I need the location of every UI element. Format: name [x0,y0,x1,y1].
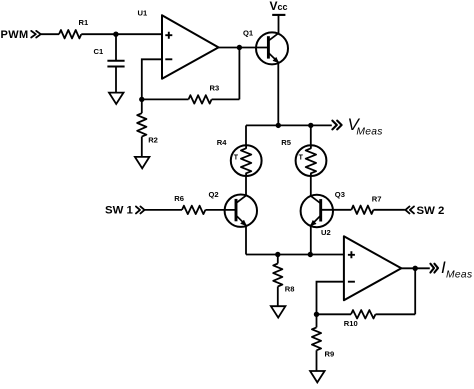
node [314,312,319,317]
node [113,32,118,37]
node [308,252,313,257]
svg-text:R2: R2 [148,136,158,145]
resistor R3 [142,84,240,104]
wire [41,33,59,35]
port PWM [1,29,41,41]
svg-text:T: T [299,155,304,162]
svg-text:T: T [234,155,239,162]
wire [321,209,352,211]
svg-text:Vcc: Vcc [270,0,288,13]
resistor R2 [137,99,158,156]
wire [245,176,247,196]
wire [278,15,280,33]
resistor R8 [273,255,294,307]
svg-text:R3: R3 [210,84,220,93]
svg-text:Q2: Q2 [209,190,219,199]
resistor R7 [351,194,381,214]
transistor Q2 [209,190,258,227]
svg-text:SW 2: SW 2 [417,205,445,217]
port IMeas [430,258,472,281]
svg-text:R5: R5 [281,138,291,147]
wire [205,209,236,211]
node [276,123,281,128]
resistor R10 [317,310,416,328]
svg-text:R8: R8 [285,285,295,294]
svg-text:U2: U2 [321,228,331,237]
svg-text:R6: R6 [174,194,184,203]
thermistor R4 [217,138,262,176]
resistor R9 [312,314,334,371]
svg-text:Q3: Q3 [335,190,345,199]
wire [142,59,162,99]
svg-text:IMeas: IMeas [441,258,472,281]
svg-text:R9: R9 [325,350,335,359]
resistor R1 [59,18,89,38]
op-amp U1 [138,9,219,79]
node [139,97,144,102]
node [308,123,313,128]
capacitor C1 [94,34,125,92]
wire [238,48,240,100]
svg-text:R10: R10 [344,319,358,328]
resistor R6 [174,194,205,214]
svg-text:R1: R1 [79,18,89,27]
ground [271,306,286,317]
ground [109,93,124,104]
port SW1 [105,205,145,217]
svg-text:R4: R4 [217,138,227,147]
wire [373,209,405,211]
transistor Q1 [243,28,288,64]
power Vcc [270,0,288,15]
wire [277,62,279,125]
wire [81,33,162,35]
transistor Q3 [301,190,345,227]
port SW2 [405,205,444,217]
wire [219,47,269,49]
svg-text:PWM: PWM [1,29,29,41]
svg-text:Q1: Q1 [243,28,254,37]
wire [145,209,182,211]
node [275,252,280,257]
wire [317,282,344,315]
ground [135,157,150,168]
wire [246,124,332,126]
node [237,45,242,50]
svg-text:SW 1: SW 1 [105,205,134,217]
wire [310,125,312,145]
svg-text:U1: U1 [138,9,148,18]
wire [245,226,247,255]
port VMeas [332,115,382,138]
wire [414,268,416,314]
svg-text:VMeas: VMeas [348,115,383,138]
ground [310,371,325,382]
wire [401,267,430,269]
wire [245,125,247,145]
wire [246,254,344,256]
svg-text:R7: R7 [372,194,382,203]
node [413,266,418,271]
svg-text:C1: C1 [94,47,104,56]
thermistor R5 [281,138,326,176]
op-amp U2 [321,228,401,300]
wire [310,176,312,196]
wire [310,226,312,255]
